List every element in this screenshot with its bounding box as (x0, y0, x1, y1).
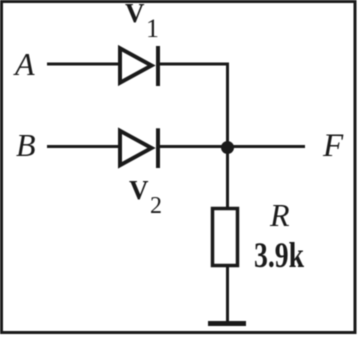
svg-text:R: R (269, 197, 290, 233)
svg-text:2: 2 (150, 193, 162, 219)
label V2 (129, 175, 162, 219)
svg-text:B: B (16, 127, 36, 163)
svg-text:F: F (322, 128, 344, 164)
label V1 (125, 0, 159, 43)
svg-text:3.9k: 3.9k (254, 235, 304, 275)
wire junction to resistor (226, 147, 229, 208)
wire resistor to ground (226, 266, 229, 322)
wire V1 cathode to junction (158, 64, 228, 148)
diode V1 (120, 46, 158, 86)
diode V2 (120, 128, 158, 168)
wire B input (47, 145, 121, 148)
ground (208, 321, 246, 326)
wire V2 cathode to output F (158, 145, 305, 148)
svg-text:1: 1 (146, 14, 159, 43)
svg-text:A: A (13, 46, 35, 82)
svg-text:V: V (129, 175, 149, 205)
wire A input (47, 63, 121, 66)
resistor R (213, 209, 238, 266)
junction node dot (221, 141, 234, 154)
svg-text:V: V (125, 0, 145, 28)
